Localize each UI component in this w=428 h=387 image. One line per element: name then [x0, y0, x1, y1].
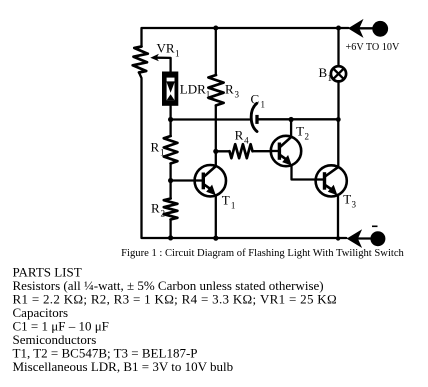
svg-text:VR: VR	[157, 41, 175, 56]
svg-text:T: T	[343, 191, 351, 206]
svg-text:C: C	[251, 92, 260, 107]
svg-text:2: 2	[305, 131, 310, 141]
svg-text:1: 1	[231, 201, 236, 211]
svg-text:4: 4	[244, 136, 249, 146]
svg-text:R: R	[151, 140, 160, 155]
svg-text:T: T	[296, 123, 304, 138]
svg-text:3: 3	[235, 90, 240, 100]
svg-text:1: 1	[328, 73, 333, 83]
svg-text:1: 1	[160, 148, 165, 158]
svg-text:2: 2	[161, 209, 166, 219]
svg-text:T: T	[222, 193, 230, 208]
svg-text:R: R	[151, 201, 160, 216]
svg-text:3: 3	[352, 199, 357, 209]
svg-text:Figure 1 : Circuit Diagram of: Figure 1 : Circuit Diagram of Flashing L…	[121, 248, 404, 259]
svg-text:R: R	[225, 82, 234, 97]
svg-text:+6V TO 10V: +6V TO 10V	[346, 42, 401, 53]
svg-text:1: 1	[175, 49, 180, 59]
svg-text:R: R	[235, 128, 244, 143]
svg-text:1: 1	[206, 90, 211, 100]
svg-text:LDR: LDR	[180, 82, 206, 97]
svg-text:Miscellaneous LDR, B1 = 3V to: Miscellaneous LDR, B1 = 3V to 10V bulb	[13, 359, 234, 374]
svg-text:1: 1	[261, 100, 266, 110]
svg-text:B: B	[319, 65, 328, 80]
